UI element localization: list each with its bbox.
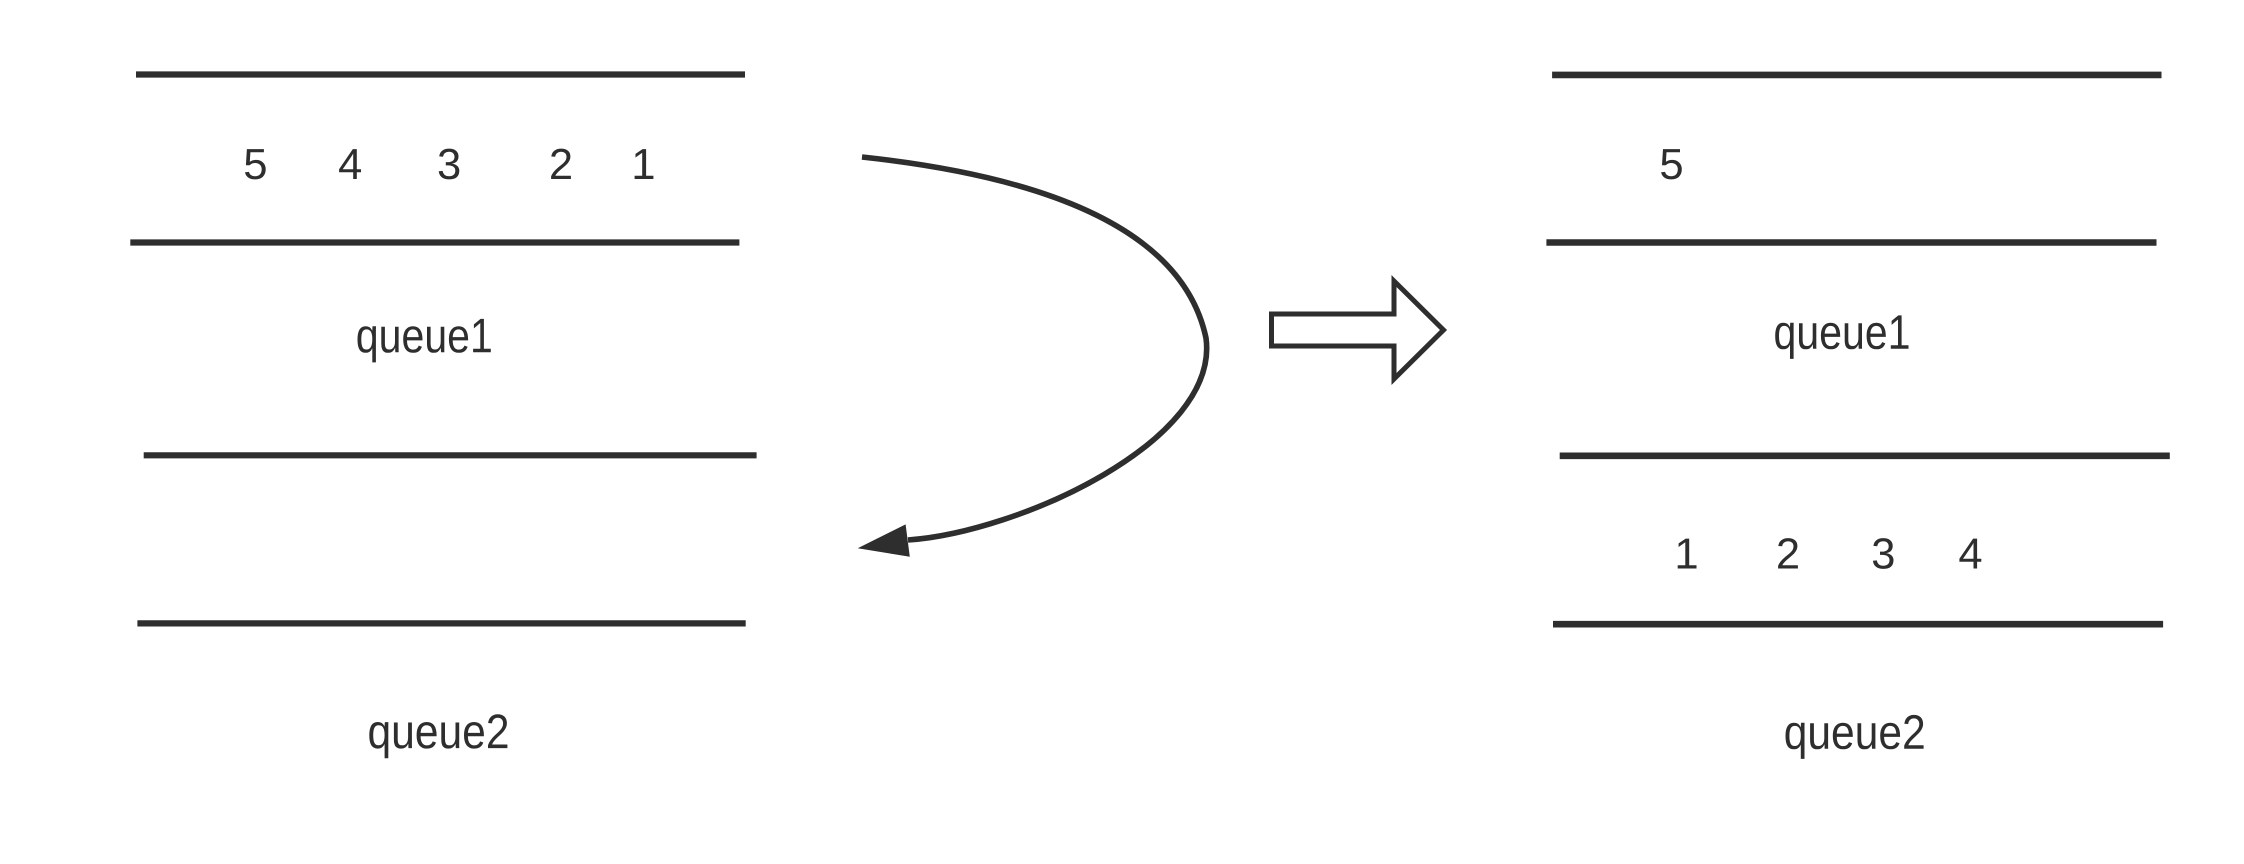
queue1 (left) top line bbox=[136, 71, 745, 77]
queue1 (left) element 2 bbox=[551, 149, 571, 179]
queue2 (left) label bbox=[369, 714, 507, 758]
queue2 (right) element 1 bbox=[1678, 539, 1697, 569]
queue2 (right) element 3 bbox=[1873, 538, 1894, 569]
queue1 (right) element 5 bbox=[1661, 149, 1682, 179]
queue1 (left) element 1 bbox=[635, 149, 654, 179]
big transform arrow (outlined, pointing right) bbox=[1272, 281, 1444, 379]
queue1 (left) element 3 bbox=[439, 149, 460, 180]
queue2 (right) element 4 bbox=[1959, 539, 1981, 569]
queue1 (right) top line bbox=[1552, 72, 2161, 79]
queue1 (left) element 5 bbox=[245, 149, 266, 179]
queue2 (left) bottom line bbox=[137, 620, 745, 626]
queue1 (left) element 4 bbox=[339, 149, 361, 179]
queue2 (right) label bbox=[1786, 715, 1924, 759]
cycle arrow curve (move elements from queue1 back to queue2) bbox=[862, 157, 1207, 540]
cycle arrow head bbox=[858, 524, 910, 556]
queue1 (left) label bbox=[358, 319, 491, 363]
queue1 (right) bottom line bbox=[1546, 239, 2156, 246]
queue1 (left) bottom line bbox=[130, 239, 739, 245]
queue2 (left) top line bbox=[144, 452, 757, 458]
queue2 (right) element 2 bbox=[1778, 538, 1798, 568]
queue1 (right) label bbox=[1775, 315, 1908, 359]
queue2 (right) top line bbox=[1560, 452, 2170, 459]
queue2 (right) bottom line bbox=[1553, 621, 2163, 628]
